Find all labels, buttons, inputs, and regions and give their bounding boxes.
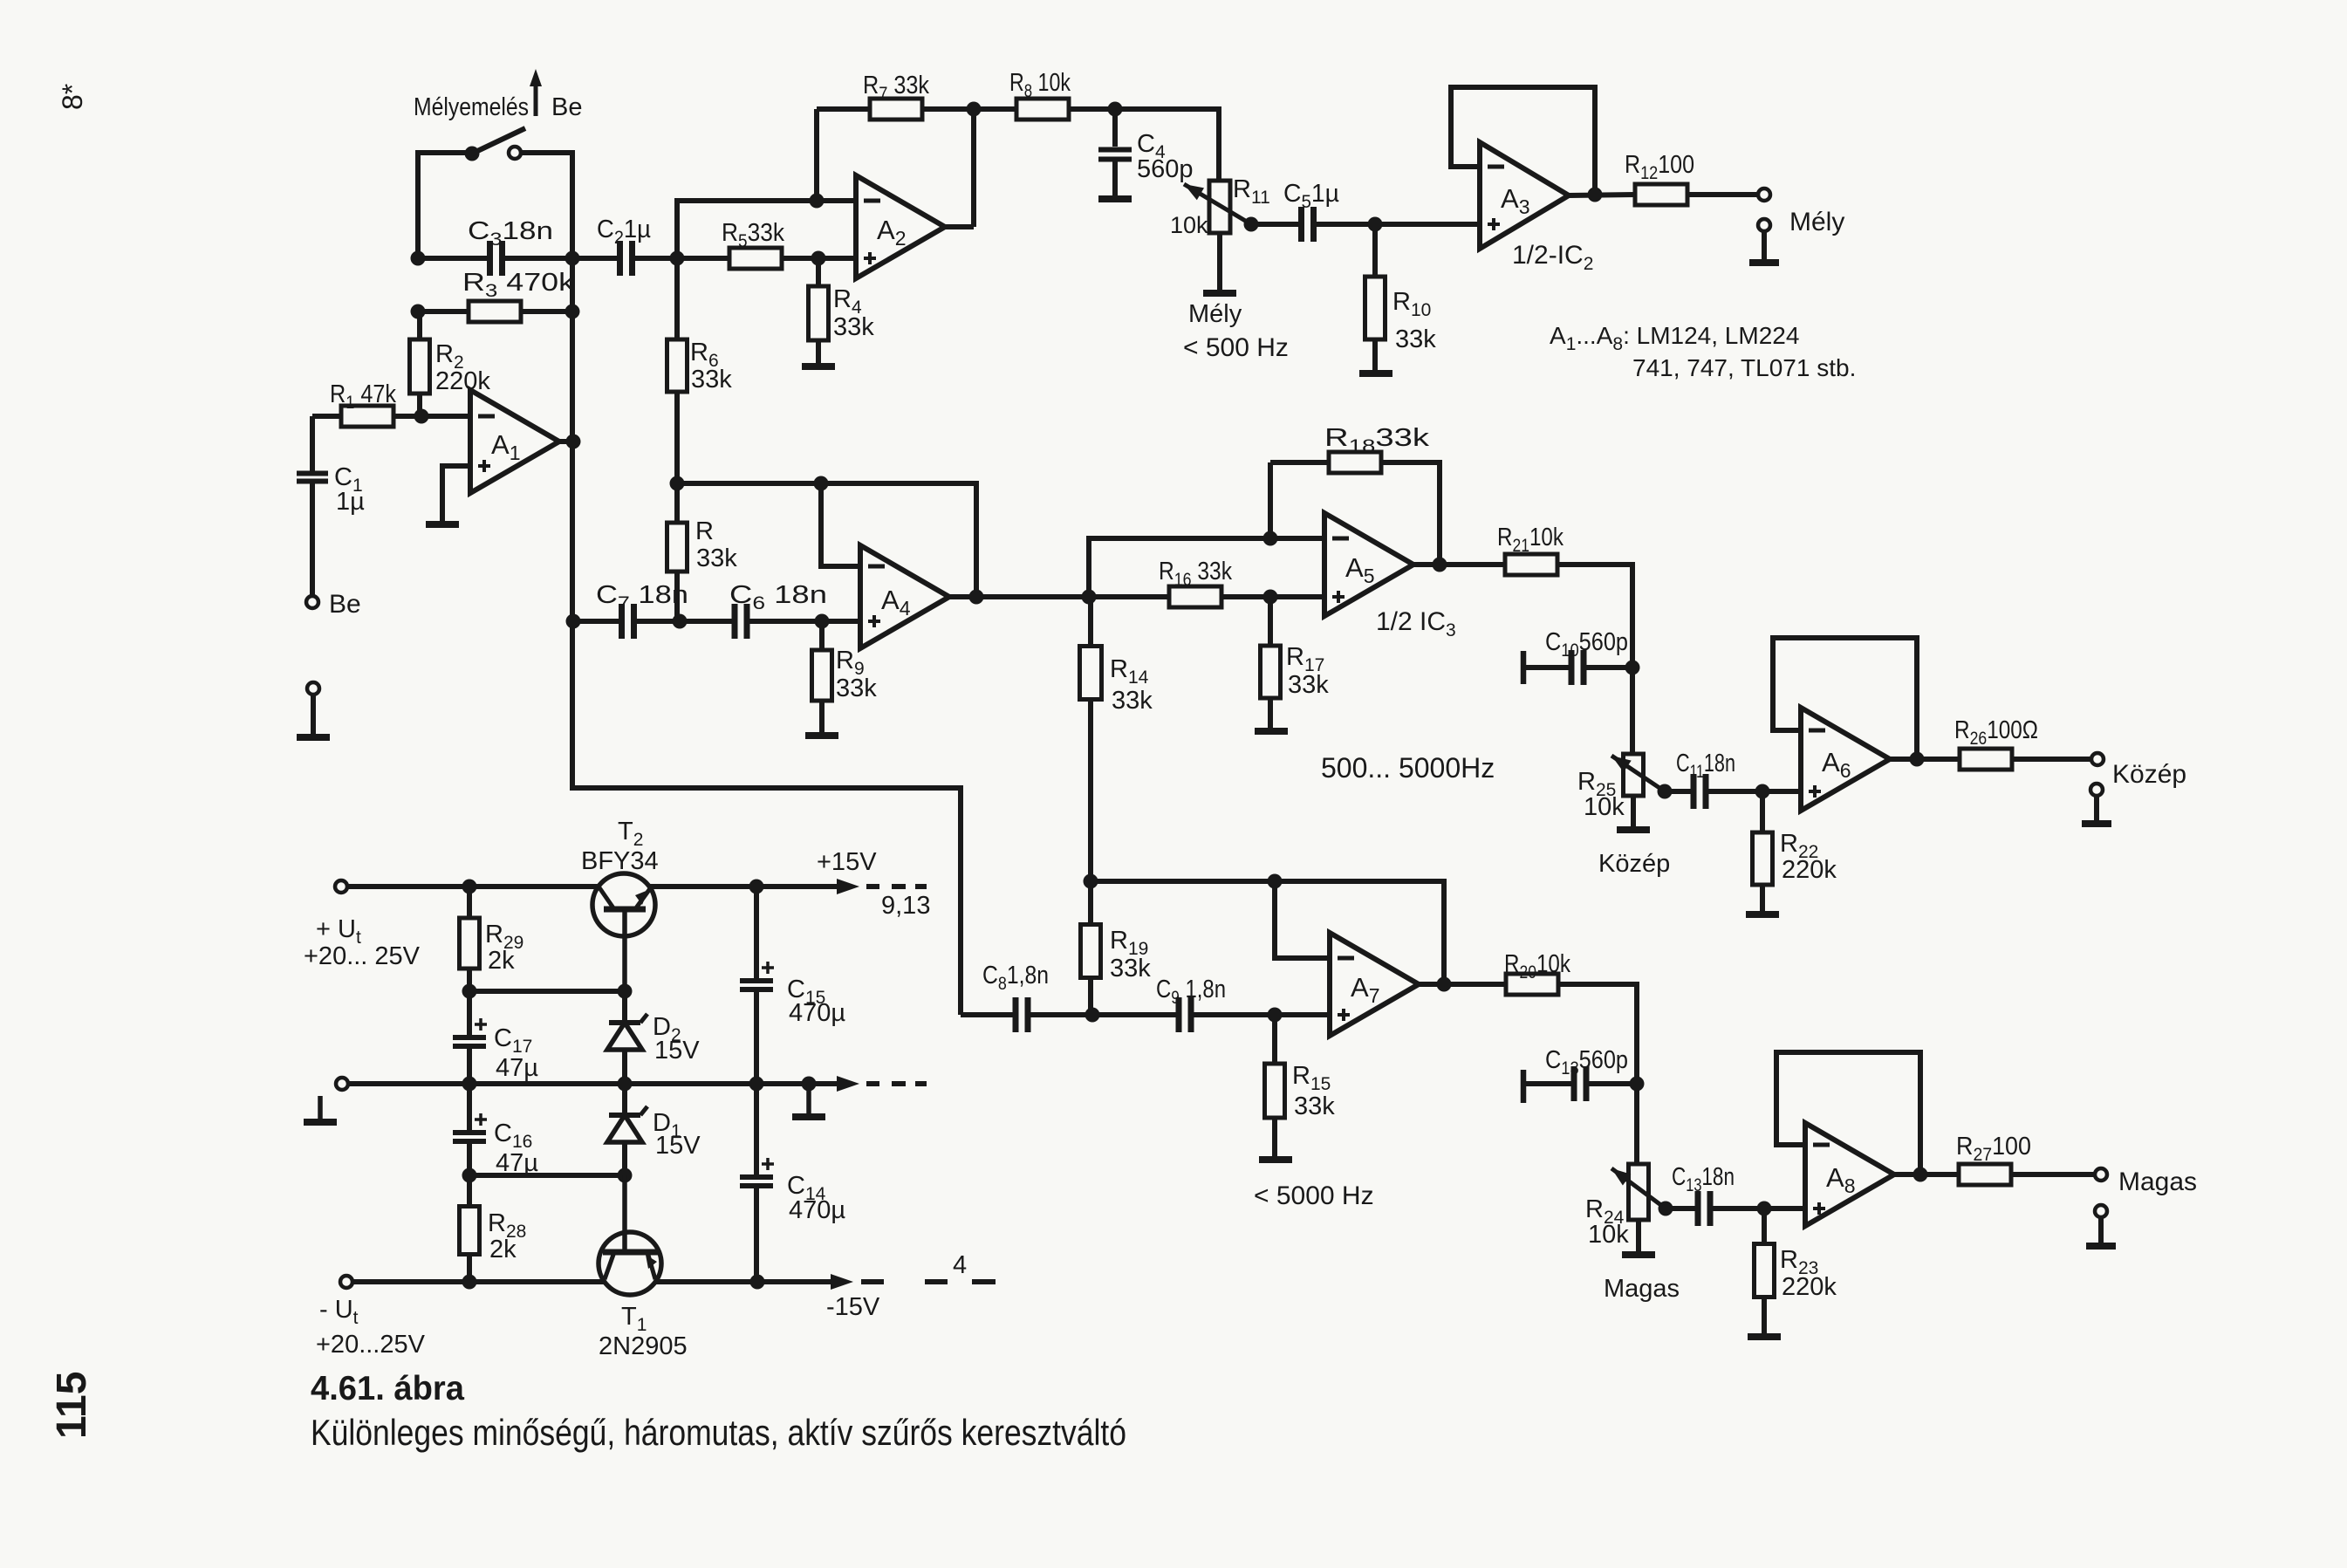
zener diode D2 [607, 991, 700, 1084]
svg-text:< 500 Hz: < 500 Hz [1183, 333, 1289, 362]
terminal -Ut [316, 1276, 426, 1359]
label Mely below R11 [1183, 300, 1289, 362]
arrow 0V [809, 1076, 927, 1092]
zener diode D1 [607, 1084, 701, 1175]
node C13a junction [1630, 1077, 1645, 1092]
node A4 - branch [814, 476, 829, 491]
node A5 - input [1263, 531, 1278, 546]
node A7 output [1437, 977, 1452, 992]
svg-text:Különleges minőségű, háromutas: Különleges minőségű, háromutas, aktív sz… [311, 1412, 1126, 1453]
wire R8 node to R11 [1115, 109, 1219, 181]
svg-text:2k: 2k [489, 1236, 517, 1263]
node A7 - branch [1268, 874, 1283, 889]
resistor R14 [1080, 597, 1153, 881]
capacitor C8 [961, 962, 1092, 1032]
resistor R23 [1755, 1209, 1837, 1333]
svg-text:220k: 220k [1782, 856, 1837, 884]
wire to A2 - input [817, 198, 856, 203]
ground below R4 [802, 363, 835, 370]
resistor R5 [677, 219, 856, 269]
svg-text:R3 470k: R3 470k [462, 269, 575, 301]
svg-text:C1318n: C1318n [1672, 1163, 1735, 1195]
capacitor C13 (18n) [1666, 1163, 1805, 1226]
wire A7 feedback row [1091, 881, 1444, 984]
node R3 left [411, 305, 426, 319]
capacitor C11 [1665, 750, 1801, 809]
svg-text:Mélyemelés: Mélyemelés [414, 93, 529, 121]
arrow +15V [817, 848, 930, 920]
svg-text:- Ut: - Ut [319, 1296, 359, 1328]
svg-text:Be: Be [551, 93, 582, 121]
capacitor C3 [418, 217, 572, 276]
svg-text:4.61. ábra: 4.61. ábra [311, 1370, 464, 1407]
svg-text:Magas: Magas [1604, 1275, 1680, 1303]
ground below R17 [1255, 728, 1288, 735]
wire A4 - input [821, 483, 860, 566]
node A4 + input [815, 614, 830, 629]
node C15 top [749, 880, 764, 894]
wire A4 feedback row [677, 483, 976, 597]
resistor R29 [460, 887, 524, 991]
svg-text:R533k: R533k [722, 219, 784, 251]
svg-text:BFY34: BFY34 [581, 847, 659, 875]
resistor R (33k) [667, 483, 738, 621]
svg-text:R1833k: R1833k [1324, 424, 1430, 456]
svg-text:220k: 220k [435, 367, 490, 395]
node A4out/R14/R16/A5- junction [1082, 590, 1097, 605]
node A4 output/feedback [969, 590, 984, 605]
node R7/R8 junction [967, 102, 982, 117]
svg-text:C21µ: C21µ [597, 216, 651, 248]
ground terminal below Be [297, 682, 330, 737]
resistor R9 [812, 621, 878, 732]
node C14 bottom [750, 1275, 765, 1290]
node A1 output [566, 435, 581, 449]
svg-text:15V: 15V [655, 1132, 701, 1160]
node R25 wiper [1658, 784, 1673, 799]
ground below R11 [1203, 290, 1236, 297]
wire T2 emitter to +15V [649, 884, 839, 889]
capacitor C7 [573, 581, 688, 639]
terminal Mely output [1758, 188, 1844, 236]
wire A4 output [949, 594, 1169, 599]
terminal Be [306, 590, 361, 619]
note A1...A8 op-amp types [1550, 322, 1856, 381]
svg-text:741, 747, TL071 stb.: 741, 747, TL071 stb. [1632, 354, 1856, 381]
svg-text:33k: 33k [1294, 1092, 1335, 1120]
resistor R17 [1261, 597, 1330, 728]
resistor R10 [1365, 224, 1437, 370]
svg-text:R26100Ω: R26100Ω [1954, 716, 2038, 749]
node A7 + input [1268, 1008, 1283, 1023]
svg-text:R: R [695, 517, 714, 545]
potentiometer R25 [1577, 754, 1665, 821]
wire to A3 + input [1375, 222, 1480, 227]
op-amp A5 [1324, 513, 1413, 616]
wire A3 output [1569, 195, 1635, 195]
svg-text:C6 18n: C6 18n [729, 581, 827, 613]
svg-text:R8 10k: R8 10k [1009, 69, 1071, 101]
node R29 bottom / base row [462, 984, 477, 999]
svg-text:+20... 25V: +20... 25V [304, 942, 421, 970]
svg-text:1µ: 1µ [336, 488, 365, 516]
node C17/C16 on 0V rail [462, 1077, 477, 1092]
node T2 base/D2 [618, 984, 633, 999]
wire input Be to R1 [312, 414, 341, 419]
op-amp A1 [470, 390, 559, 493]
node C8/C9/R19 junction [1085, 1008, 1100, 1023]
svg-text:500... 5000Hz: 500... 5000Hz [1321, 752, 1495, 784]
svg-text:C13560p: C13560p [1545, 1046, 1628, 1078]
node A2 + input [811, 251, 826, 266]
svg-text:33k: 33k [691, 366, 732, 394]
capacitor C6 [680, 581, 860, 639]
svg-text:9,13: 9,13 [881, 892, 930, 920]
wire R1 to A1 inverting input [393, 414, 470, 419]
terminal Kozep output [2091, 753, 2186, 789]
wire A1 + input to ground [442, 466, 470, 522]
wire A5 - input [1270, 536, 1324, 541]
potentiometer R24 [1585, 1164, 1666, 1249]
svg-text:C51µ: C51µ [1283, 180, 1339, 212]
node A6 output [1910, 752, 1925, 767]
ground terminal below Magas [2086, 1205, 2116, 1246]
potentiometer R11 [1170, 175, 1270, 290]
wire A2 output to R7/R8 node [971, 109, 976, 227]
svg-text:560p: 560p [1137, 155, 1194, 183]
ground below R24 [1604, 1220, 1680, 1303]
node D1/T1 base [618, 1168, 633, 1183]
svg-text:15V: 15V [654, 1037, 700, 1065]
wire C16-D1 row [469, 1173, 625, 1178]
svg-text:C318n: C318n [468, 217, 553, 250]
node ground on 0V rail [802, 1077, 817, 1092]
ground below R23 [1748, 1333, 1781, 1340]
wire A3 feedback loop [1451, 87, 1595, 195]
node C7/C6/R junction [673, 614, 688, 629]
wire A8 output [1894, 1172, 1959, 1177]
wire A6 feedback loop [1773, 638, 1917, 759]
svg-text:R2110k: R2110k [1497, 524, 1564, 556]
node A8 output [1913, 1167, 1928, 1182]
svg-text:1/2 IC3: 1/2 IC3 [1376, 607, 1456, 640]
wire +Ut rail [347, 884, 599, 889]
svg-text:33k: 33k [1288, 671, 1329, 699]
resistor R12 [1625, 151, 1759, 205]
svg-text:8*: 8* [57, 84, 88, 110]
wire junction up to A5 - row [1089, 538, 1270, 597]
resistor R27 [1956, 1133, 2096, 1185]
svg-text:R12100: R12100 [1625, 151, 1694, 183]
svg-text:470µ: 470µ [789, 1196, 845, 1224]
arrow -15V [826, 1251, 996, 1321]
terminal 0V [336, 1078, 348, 1090]
svg-text:< 5000 Hz: < 5000 Hz [1254, 1181, 1374, 1210]
svg-text:33k: 33k [833, 313, 874, 341]
resistor R4 [809, 258, 875, 363]
node R24 wiper [1659, 1202, 1673, 1216]
resistor R7 [817, 72, 974, 201]
transistor T1 2N2905 [599, 1175, 688, 1360]
wire switch row right [521, 153, 572, 258]
capacitor C15 [740, 887, 845, 1084]
svg-text:R27100: R27100 [1956, 1133, 2031, 1165]
capacitor C14 [740, 1084, 845, 1282]
terminal +Ut [304, 880, 421, 970]
ground below R9 [805, 732, 838, 739]
ground below R25 [1598, 796, 1670, 878]
capacitor C16 [453, 1084, 538, 1177]
capacitor C1 [297, 416, 365, 597]
capacitor C10 [1523, 628, 1632, 685]
resistor R26 [1954, 716, 2091, 770]
svg-text:R1 47k: R1 47k [330, 380, 396, 413]
resistor R2 [410, 312, 491, 416]
node D2/D1 on 0V rail [618, 1077, 633, 1092]
wire A2 output [945, 224, 974, 229]
capacitor C5 [1251, 180, 1375, 242]
transistor T2 BFY34 [581, 818, 659, 991]
node R11 wiper [1244, 217, 1259, 232]
svg-text:Mély: Mély [1188, 300, 1242, 328]
svg-text:C9 1,8n: C9 1,8n [1156, 976, 1226, 1008]
resistor R8 [974, 69, 1115, 120]
capacitor C13 (560p) [1523, 1046, 1637, 1103]
wire A8 feedback loop [1776, 1052, 1920, 1174]
node C15/C14 on 0V rail [749, 1077, 764, 1092]
svg-text:2k: 2k [488, 947, 515, 975]
wire A1 output to long vertical [559, 439, 573, 444]
svg-text:-15V: -15V [826, 1293, 880, 1321]
ground below R22 [1746, 911, 1779, 918]
svg-text:33k: 33k [836, 674, 877, 702]
ground symbol at 0V input [304, 1096, 337, 1122]
svg-text:Be: Be [329, 590, 361, 619]
op-amp A2 [856, 175, 945, 278]
svg-text:33k: 33k [696, 544, 737, 572]
node C11/R22/A6 junction [1755, 784, 1770, 799]
svg-text:10k: 10k [1584, 793, 1625, 821]
resistor R18 feedback [1270, 424, 1440, 565]
resistor R20 [1504, 950, 1637, 1164]
svg-text:33k: 33k [1112, 687, 1153, 715]
capacitor C4 [1098, 109, 1194, 195]
svg-text:Közép: Közép [2112, 760, 2186, 789]
resistor R21 [1497, 524, 1632, 754]
svg-text:C81,8n: C81,8n [982, 962, 1049, 994]
ground below C4 [1098, 195, 1132, 202]
node A2 - input [810, 194, 825, 209]
wire A5 output [1413, 562, 1506, 567]
svg-text:R7 33k: R7 33k [863, 72, 929, 104]
svg-text:4: 4 [953, 1251, 967, 1279]
wire T1 emitter to -15V [655, 1279, 833, 1284]
wire base row [469, 989, 625, 994]
op-amp A3 [1480, 142, 1569, 249]
svg-text:47µ: 47µ [496, 1054, 538, 1082]
wire A7 output [1419, 982, 1506, 987]
svg-text:115: 115 [49, 1372, 95, 1439]
svg-text:2N2905: 2N2905 [599, 1332, 688, 1360]
node C13/R23/A8 junction [1757, 1202, 1772, 1216]
svg-text:10k: 10k [1588, 1221, 1629, 1249]
wire A7 - input [1275, 881, 1330, 958]
ground terminal below Kozep [2082, 784, 2111, 824]
wire 0V rail [348, 1081, 809, 1086]
capacitor C17 [453, 991, 538, 1084]
capacitor C9 [1092, 976, 1330, 1032]
svg-text:1/2-IC2: 1/2-IC2 [1512, 241, 1593, 274]
resistor R16 [1159, 558, 1324, 607]
node C3 left [411, 251, 426, 266]
resistor R19 [1081, 881, 1152, 1015]
svg-text:C1118n: C1118n [1676, 750, 1735, 782]
ground on 0V rail [792, 1084, 825, 1117]
node R1/R2/A1- [414, 409, 429, 424]
node A4 feedback left [670, 476, 685, 491]
node C10 junction [1625, 661, 1640, 675]
node C3 right [565, 251, 580, 266]
terminal Magas output [2095, 1167, 2197, 1196]
op-amp A6 [1801, 708, 1890, 811]
svg-text:Közép: Közép [1598, 850, 1670, 878]
node R28 bottom [462, 1275, 477, 1290]
svg-text:Magas: Magas [2118, 1167, 2197, 1196]
node R29 top [462, 880, 477, 894]
switch Melyemeles (lever) [465, 128, 526, 161]
svg-text:R16 33k: R16 33k [1159, 558, 1232, 590]
op-amp A7 [1330, 933, 1419, 1036]
node A3 output [1588, 188, 1603, 202]
ground below R10 [1359, 370, 1392, 377]
node C7 left on long vertical [566, 614, 581, 629]
wire -Ut rail [352, 1279, 605, 1284]
node R3 right [565, 305, 580, 319]
resistor R15 [1265, 1015, 1336, 1156]
ground terminal below Mely [1749, 219, 1779, 263]
resistor R6 [667, 258, 733, 483]
wire A2 inverting feed [677, 201, 817, 258]
svg-text:470µ: 470µ [789, 999, 845, 1027]
ground at A1 + [426, 521, 459, 528]
svg-text:R2010k: R2010k [1504, 950, 1570, 983]
svg-text:33k: 33k [1395, 325, 1436, 353]
svg-text:Mély: Mély [1789, 208, 1844, 236]
node C2/R5/R6 junction [670, 251, 685, 266]
svg-text:10k: 10k [1170, 212, 1208, 238]
ground below R15 [1259, 1156, 1292, 1163]
node A5 output [1433, 558, 1447, 572]
resistor R22 [1753, 791, 1837, 911]
svg-text:220k: 220k [1782, 1273, 1837, 1301]
op-amp A8 [1805, 1123, 1894, 1226]
resistor R3 [418, 269, 575, 322]
svg-text:+20...25V: +20...25V [316, 1331, 426, 1359]
node C16/R28 [462, 1168, 477, 1183]
wire A6 output [1890, 757, 1960, 762]
op-amp A4 [860, 545, 949, 648]
svg-text:+15V: +15V [817, 848, 877, 876]
node A5 + input [1263, 590, 1278, 605]
svg-text:33k: 33k [1110, 955, 1151, 983]
node R14/R19/A7 row junction [1084, 874, 1098, 889]
svg-text:C10560p: C10560p [1545, 628, 1628, 661]
label Melyemeles Be with arrow [414, 69, 582, 121]
node C5/R10/A3 junction [1368, 217, 1383, 232]
wire long vertical A1 output rail [572, 258, 961, 1015]
node R8/C4 junction [1108, 102, 1123, 117]
resistor R1 [330, 380, 396, 427]
capacitor C2 [572, 216, 677, 276]
wire switch row left [418, 153, 472, 258]
resistor R28 [460, 1175, 527, 1282]
